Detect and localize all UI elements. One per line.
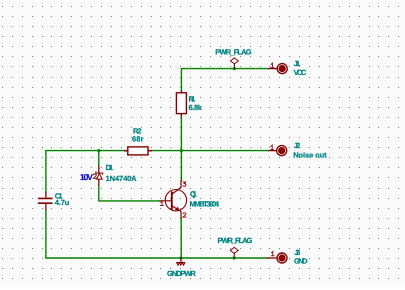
- resistor R1: [176, 91, 186, 116]
- wire D1 branch vertical lower and horizontal to Q1 base: [99, 185, 160, 201]
- svg-text:MMBT3904: MMBT3904: [190, 199, 220, 208]
- wire Q1 emitter down: [180, 218, 182, 258]
- svg-text:GNDPWR: GNDPWR: [167, 269, 196, 278]
- connector J3: [267, 253, 287, 263]
- junction at R2 right / collector column: [180, 149, 183, 152]
- PWR_FLAG top symbol: [230, 58, 238, 69]
- R1 value 6.8k: [189, 103, 203, 112]
- J2 reference label: [294, 141, 301, 150]
- wire vertical from top corner down to R1: [180, 69, 182, 93]
- wire top horizontal VCC net: [181, 68, 268, 70]
- svg-text:J1: J1: [294, 59, 300, 68]
- Q1 reference label: [190, 190, 197, 199]
- capacitor C1: [39, 192, 52, 209]
- svg-text:1N4740A: 1N4740A: [106, 174, 138, 183]
- C1 value 4.7u: [55, 198, 70, 207]
- GNDPWR label: [167, 269, 196, 278]
- svg-text:Q1: Q1: [190, 190, 197, 199]
- svg-text:4.7u: 4.7u: [55, 198, 70, 207]
- Q1 value MMBT3904: [190, 199, 220, 208]
- J1 name VCC: [294, 68, 307, 77]
- PWR_FLAG bottom label: [218, 236, 253, 245]
- D1 value 1N4740A: [106, 174, 138, 183]
- wire D1 branch vertical upper: [98, 151, 100, 167]
- J2 name Noise out: [293, 151, 327, 160]
- J1 pin number 1: [271, 63, 274, 67]
- wire bottom horizontal GND net: [46, 257, 268, 259]
- svg-text:PWR_FLAG: PWR_FLAG: [218, 236, 253, 245]
- Q1 pin number 2 (emitter): [183, 213, 186, 217]
- wire left vertical upper (to C1): [45, 151, 47, 193]
- svg-text:D1: D1: [106, 163, 114, 172]
- GNDPWR power symbol: [177, 258, 185, 265]
- svg-text:GND: GND: [294, 256, 308, 265]
- PWR_FLAG top label: [215, 48, 251, 57]
- R2 reference label: [133, 127, 142, 136]
- svg-text:VCC: VCC: [294, 68, 307, 77]
- svg-text:PWR_FLAG: PWR_FLAG: [215, 48, 251, 57]
- svg-text:Noise out: Noise out: [293, 151, 327, 160]
- junction at D1 branch: [97, 149, 100, 152]
- connector J2: [268, 146, 286, 156]
- Q1 pin number 3 (collector): [183, 182, 186, 186]
- J2 pin number 1: [271, 145, 274, 149]
- J3 reference label: [294, 248, 300, 257]
- R1 reference label: [189, 95, 196, 104]
- connector J1: [268, 64, 287, 74]
- D1 pin number 2: [93, 174, 96, 178]
- svg-text:10V: 10V: [80, 172, 93, 182]
- J3 name GND: [294, 256, 308, 265]
- resistor R2: [124, 147, 151, 155]
- svg-text:6.8k: 6.8k: [189, 103, 203, 112]
- junction at bottom PWR_FLAG: [233, 256, 236, 259]
- junction at top PWR_FLAG: [233, 67, 236, 70]
- svg-text:68r: 68r: [132, 135, 144, 144]
- wire middle horizontal noise net: [46, 150, 269, 152]
- C1 reference label: [55, 191, 63, 200]
- transistor Q1: [160, 180, 187, 217]
- R2 value 68r: [132, 135, 144, 144]
- D1 voltage label 10V: [80, 172, 93, 182]
- PWR_FLAG bottom symbol: [230, 247, 238, 258]
- junction at GNDPWR: [179, 256, 182, 259]
- svg-text:J2: J2: [294, 141, 301, 150]
- J1 reference label: [294, 59, 300, 68]
- wire vertical R1 bottom to Q1 collector: [180, 114, 182, 181]
- Q1 pin number 1 (base): [160, 201, 163, 205]
- wire left vertical lower (C1 to bottom): [45, 210, 47, 258]
- D1 reference label: [106, 163, 114, 172]
- J3 pin number 1: [271, 252, 274, 256]
- zener diode D1: [96, 167, 103, 186]
